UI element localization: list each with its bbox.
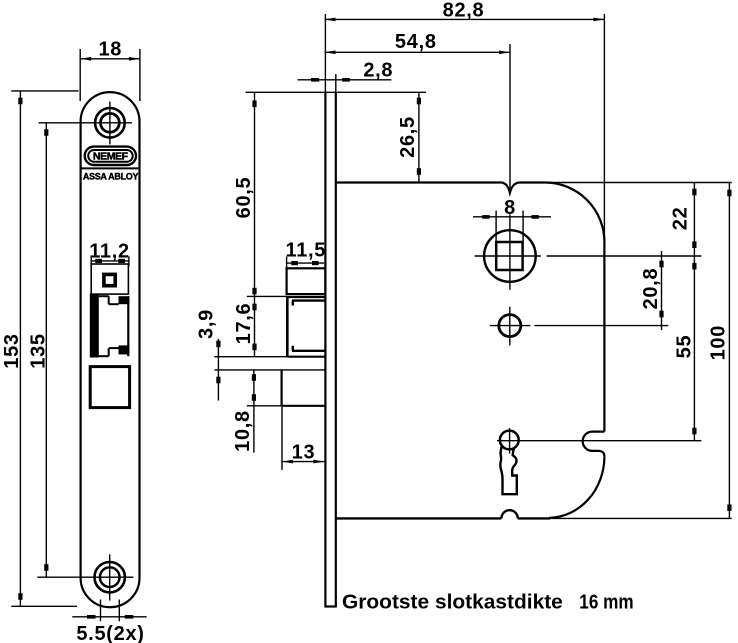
top screw hole (39, 102, 132, 145)
svg-text:8: 8 (504, 197, 516, 219)
svg-text:2,8: 2,8 (363, 60, 393, 82)
dimension 11,5 (285, 240, 326, 269)
faceplate front view outline (81, 92, 140, 607)
svg-text:26,5: 26,5 (397, 116, 419, 158)
svg-text:55: 55 (674, 335, 696, 359)
latch head inner square (104, 274, 115, 285)
dimension 8 (473, 197, 551, 241)
dimension 13 (282, 407, 324, 470)
dimension 55 (521, 256, 701, 441)
keyhole (497, 428, 521, 494)
faceplate side view (324, 14, 336, 607)
latch bolt black bar (90, 294, 99, 358)
latch bolt side view (287, 297, 325, 357)
faceplate seam line (81, 167, 139, 169)
svg-text:135: 135 (27, 333, 49, 368)
bottom screw hole (37, 554, 133, 600)
middle hole (490, 307, 669, 346)
svg-text:3,9: 3,9 (196, 309, 218, 339)
svg-text:NEMEF: NEMEF (93, 151, 129, 163)
NEMEF logo (85, 147, 136, 165)
svg-text:5.5(2x): 5.5(2x) (76, 623, 144, 643)
latch bolt front view (99, 296, 130, 356)
dimension 5.5(2x) (72, 600, 146, 643)
svg-text:82,8: 82,8 (443, 0, 485, 22)
svg-text:20,8: 20,8 (640, 268, 662, 310)
svg-text:ASSA ABLOY: ASSA ABLOY (83, 172, 139, 182)
svg-text:13: 13 (292, 441, 316, 463)
svg-text:54,8: 54,8 (395, 31, 437, 53)
dimension 26,5 (246, 92, 427, 182)
svg-text:11,5: 11,5 (285, 240, 326, 262)
dimension 10,8 (232, 370, 282, 453)
lock case outline (336, 183, 605, 519)
dimension 2,8 (298, 60, 394, 82)
deadbolt side view (282, 370, 326, 406)
dimension 22 (670, 183, 697, 257)
dimension 11,2 (89, 241, 130, 267)
dimension 20,8 (640, 251, 664, 330)
deadbolt front view (90, 367, 129, 408)
dimension 18 (80, 38, 140, 101)
dimension 82,8 (325, 0, 605, 242)
dimension 54,8 (325, 31, 511, 193)
latch head side view (287, 268, 326, 294)
dimension 100 (545, 183, 732, 519)
dimension 17,6 (233, 297, 257, 357)
svg-text:100: 100 (708, 325, 730, 360)
dimension 153 (1, 91, 79, 606)
svg-text:11,2: 11,2 (89, 241, 130, 263)
svg-text:60,5: 60,5 (233, 177, 255, 219)
svg-text:22: 22 (670, 207, 692, 231)
svg-text:Grootste slotkastdikte: Grootste slotkastdikte (342, 591, 563, 613)
spindle follower hole (475, 214, 702, 289)
svg-text:16 mm: 16 mm (579, 591, 633, 613)
svg-text:18: 18 (98, 38, 122, 60)
svg-text:153: 153 (1, 333, 23, 368)
latch head front view (91, 264, 128, 294)
dimension 60,5 (233, 92, 288, 297)
svg-text:10,8: 10,8 (232, 410, 254, 452)
dimension 135 (27, 123, 49, 578)
svg-text:17,6: 17,6 (233, 303, 255, 345)
dimension 3,9 (196, 309, 326, 400)
